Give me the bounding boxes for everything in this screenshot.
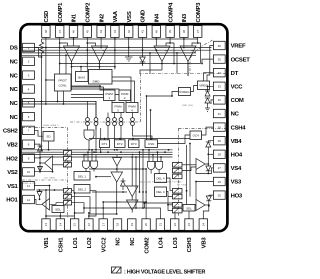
svg-text:DEL 3: DEL 3 bbox=[156, 190, 165, 194]
horizontal rail y176.7 bbox=[95, 176, 111, 178]
pin 3 NC (left) bbox=[10, 71, 35, 79]
svg-text:VCC2: VCC2 bbox=[101, 237, 107, 253]
mid bus line 4 bbox=[40, 156, 173, 158]
svg-text:13: 13 bbox=[44, 223, 48, 227]
svg-text:VB3: VB3 bbox=[202, 237, 208, 249]
wire CSH2 bbox=[34, 130, 43, 136]
input bus line 1 bbox=[22, 47, 212, 49]
block VREG bbox=[198, 81, 210, 90]
svg-text:NC: NC bbox=[231, 112, 240, 118]
svg-text:COMP1: COMP1 bbox=[58, 2, 64, 23]
svg-text:44: 44 bbox=[99, 30, 103, 34]
svg-text:12: 12 bbox=[27, 198, 31, 202]
svg-text:27: 27 bbox=[218, 166, 222, 170]
pin 32 COM (right) bbox=[213, 96, 244, 104]
svg-text:24: 24 bbox=[201, 223, 205, 227]
svg-text:NC: NC bbox=[10, 60, 19, 66]
svg-text:DT: DT bbox=[231, 71, 239, 77]
svg-text:NC: NC bbox=[116, 237, 122, 246]
domain dash right boundary bbox=[141, 73, 226, 75]
wire PROT bottom feeds bbox=[57, 91, 65, 105]
diode D5 bbox=[121, 178, 126, 190]
svg-text:29: 29 bbox=[218, 139, 222, 143]
svg-text:VS1: VS1 bbox=[7, 184, 18, 190]
domain dash HV top right bbox=[179, 127, 227, 129]
svg-text:20: 20 bbox=[144, 223, 148, 227]
op-amp EA2 bbox=[92, 46, 108, 62]
svg-text:COM: COM bbox=[231, 98, 244, 104]
svg-text:NC: NC bbox=[130, 237, 136, 246]
block DMD U4 bbox=[89, 70, 113, 85]
svg-text:45: 45 bbox=[85, 30, 89, 34]
AND gate G1 bbox=[84, 130, 94, 150]
wire HO4 pin bbox=[207, 153, 213, 155]
block SDL1 bbox=[52, 206, 64, 213]
pin 42 VSS (top) bbox=[125, 11, 133, 37]
block PROT CONL U2 bbox=[55, 74, 72, 91]
mid bus line 1 bbox=[22, 149, 173, 151]
AND gate G6 bbox=[156, 152, 163, 173]
pin 35 OCSET (right) bbox=[213, 55, 250, 63]
wire IN3 bbox=[183, 39, 185, 48]
svg-text:DEL 4: DEL 4 bbox=[156, 177, 165, 181]
svg-text:15: 15 bbox=[73, 223, 77, 227]
block SDL3 bbox=[183, 205, 195, 212]
svg-text:IN2: IN2 bbox=[99, 13, 105, 22]
svg-text:VCC: VCC bbox=[231, 85, 244, 91]
pin 24 VB3 (bottom) bbox=[199, 219, 207, 249]
svg-text:NC: NC bbox=[10, 73, 19, 79]
domain dash left vertical bbox=[67, 128, 69, 218]
svg-text:IN4: IN4 bbox=[155, 13, 161, 22]
svg-text:NC: NC bbox=[10, 115, 19, 121]
wire EA3 to PWM4 bbox=[140, 70, 162, 74]
pin 47 COMP1 (top) bbox=[56, 2, 64, 38]
svg-text:(D1) (D2) TO VB4 TO VS4 TO: (D1) (D2) TO VB4 TO VS4 TO VB3 bbox=[140, 181, 182, 183]
svg-text:: HIGH VOLTAGE LEVEL SHIFTER: : HIGH VOLTAGE LEVEL SHIFTER bbox=[124, 269, 206, 275]
level shifter LS2B bbox=[64, 157, 72, 162]
svg-text:47: 47 bbox=[58, 30, 62, 34]
svg-text:BIAS: BIAS bbox=[78, 76, 85, 80]
svg-text:DS: DS bbox=[10, 46, 18, 52]
wire VS1 bbox=[34, 185, 50, 199]
pin 19 NC (bottom) bbox=[128, 219, 136, 246]
wire COMP4 input jog bbox=[166, 39, 170, 46]
pin 2 NC (left) bbox=[10, 57, 35, 65]
svg-text:OCSET: OCSET bbox=[231, 57, 250, 63]
svg-text:NC: NC bbox=[10, 101, 19, 107]
svg-text:VREF: VREF bbox=[231, 44, 246, 50]
pin 40 IN4 (top) bbox=[152, 13, 160, 37]
vertical rail E bbox=[189, 143, 191, 197]
caption: high voltage level shifter legend bbox=[112, 267, 206, 275]
current source pair CS3 bbox=[106, 113, 110, 140]
svg-text:CSN: CSN bbox=[148, 142, 154, 146]
wire VCC2 rail bbox=[102, 201, 146, 219]
wire COMP1 input jog bbox=[60, 39, 68, 46]
pin 38 IN3 (top) bbox=[180, 13, 188, 37]
wire DS to R1 bbox=[34, 48, 42, 58]
wire OC4 to CSH4 bbox=[202, 127, 214, 135]
top pin stubs bbox=[46, 37, 198, 39]
level shifter LS4C bbox=[173, 174, 183, 179]
svg-text:17: 17 bbox=[101, 223, 105, 227]
wire COMP2 input jog bbox=[87, 39, 95, 46]
LS1 out wires bbox=[72, 191, 97, 217]
svg-text:HO1: HO1 bbox=[6, 198, 18, 204]
OR gate G3 bbox=[91, 150, 98, 172]
svg-text:VS3: VS3 bbox=[231, 180, 242, 186]
input bus line 2 bbox=[22, 49, 212, 51]
block DT1 bbox=[100, 140, 110, 148]
wire LO3 rail bbox=[144, 203, 175, 219]
pin 7 CSH2 (left) bbox=[3, 126, 35, 134]
wire bus PROT-PWM b bbox=[71, 89, 119, 90]
pin 25 HO3 (right) bbox=[213, 191, 243, 199]
svg-text:LO4: LO4 bbox=[159, 237, 165, 249]
svg-text:43: 43 bbox=[113, 30, 117, 34]
vertical feed x150 bbox=[149, 53, 151, 74]
row wire bbox=[89, 138, 202, 140]
wire PROT top feed bbox=[65, 54, 67, 74]
bus under top pins bbox=[42, 38, 198, 40]
pin 48 CSD (top) bbox=[42, 11, 50, 38]
wire CSH1 bbox=[59, 213, 61, 219]
svg-text:42: 42 bbox=[127, 30, 131, 34]
svg-text:NC: NC bbox=[10, 87, 19, 93]
wire fault bus b bbox=[22, 103, 97, 151]
wire CSH3 bbox=[188, 211, 190, 219]
svg-text:35: 35 bbox=[218, 57, 222, 61]
svg-text:LO1: LO1 bbox=[73, 237, 79, 249]
svg-text:CONL: CONL bbox=[59, 84, 68, 88]
svg-text:DT1: DT1 bbox=[102, 142, 108, 146]
svg-text:33: 33 bbox=[218, 85, 222, 89]
svg-text:TO VS3: TO VS3 bbox=[177, 185, 187, 187]
svg-text:LO2: LO2 bbox=[87, 237, 93, 249]
svg-text:41: 41 bbox=[141, 30, 145, 34]
wire VB1 up bbox=[45, 190, 47, 219]
svg-text:HO3: HO3 bbox=[231, 193, 243, 199]
pin 17 VCC2 (bottom) bbox=[99, 219, 107, 253]
level shifter LS4B bbox=[173, 168, 183, 173]
pin 12 HO1 (left) bbox=[6, 195, 34, 203]
block PWM4 bbox=[126, 103, 138, 113]
pin 11 VS1 (left) bbox=[7, 182, 34, 190]
clamp diode D2b bbox=[38, 166, 43, 172]
diode D-GND bbox=[140, 39, 146, 66]
wire HO2 pin bbox=[34, 151, 40, 172]
svg-text:40: 40 bbox=[154, 30, 158, 34]
level shifter LS2A bbox=[64, 151, 72, 156]
svg-text:CSH4: CSH4 bbox=[231, 125, 247, 131]
svg-text:46: 46 bbox=[72, 30, 76, 34]
wire IN2 bbox=[100, 39, 102, 48]
svg-text:COMP2: COMP2 bbox=[86, 2, 92, 23]
wire fault bus a bbox=[22, 101, 96, 104]
svg-text:IN1: IN1 bbox=[72, 13, 78, 22]
block SDH2 bbox=[43, 132, 54, 150]
svg-text:VDD (5V): VDD (5V) bbox=[182, 105, 193, 107]
driver HO4 buffer bbox=[182, 159, 209, 171]
svg-text:48: 48 bbox=[44, 30, 48, 34]
LS3 input wires bbox=[167, 178, 173, 211]
block OC4 bbox=[190, 131, 202, 140]
svg-text:39: 39 bbox=[168, 30, 172, 34]
svg-text:HIGH SIDE 2: HIGH SIDE 2 bbox=[43, 125, 59, 127]
level shifter LS1A bbox=[64, 189, 72, 194]
pin 30 CSH4 (right) bbox=[213, 123, 246, 131]
op-amp EA3 bbox=[154, 46, 170, 62]
wire col x100.7 bbox=[100, 128, 102, 153]
resistor R1 bbox=[39, 39, 43, 150]
svg-text:VB2: VB2 bbox=[7, 142, 19, 148]
svg-text:+: + bbox=[191, 49, 193, 53]
svg-text:+: + bbox=[75, 49, 77, 53]
level shifter LS2C bbox=[64, 163, 72, 168]
pin 23 CSH3 (bottom) bbox=[185, 219, 193, 253]
level shifter LS4A bbox=[173, 163, 183, 168]
driver HO3 buffer bbox=[182, 200, 210, 211]
horizontal rail y169 bbox=[89, 168, 147, 170]
svg-text:25: 25 bbox=[218, 193, 222, 197]
op-amp EA4 bbox=[180, 46, 196, 62]
svg-text:14: 14 bbox=[58, 223, 62, 227]
bootstrap diode D4 bbox=[206, 141, 214, 164]
ground VSS bbox=[125, 39, 133, 61]
svg-text:26: 26 bbox=[218, 180, 222, 184]
current source pair CS4 bbox=[113, 113, 117, 140]
clamp diode D1b bbox=[37, 190, 42, 200]
svg-text:CSH1: CSH1 bbox=[59, 237, 65, 253]
svg-text:LO3: LO3 bbox=[173, 237, 179, 249]
level shifter LS1B bbox=[64, 195, 72, 200]
buffer LO4 T2 bbox=[127, 186, 139, 200]
pin 39 COMP4 (top) bbox=[166, 2, 174, 38]
wire OC4 left bbox=[158, 135, 191, 144]
svg-text:+: + bbox=[165, 49, 167, 53]
wire bus PROT-PWM a bbox=[71, 85, 104, 90]
horizontal rail y208 bbox=[83, 207, 160, 219]
wire COMP2 feedback bbox=[86, 42, 100, 71]
svg-text:-: - bbox=[95, 49, 96, 53]
op-amp EA1 bbox=[64, 46, 80, 62]
buffer LO3 T3 bbox=[127, 200, 139, 213]
vertical rail COM2 bbox=[145, 169, 147, 219]
IC body outline bbox=[20, 24, 227, 231]
inverter G4 bbox=[113, 155, 122, 172]
wire CSN up bbox=[146, 95, 173, 140]
svg-text:DMD: DMD bbox=[93, 80, 101, 84]
pin 46 IN1 (top) bbox=[69, 13, 77, 37]
wire COMP4 feedback bbox=[161, 42, 175, 70]
wire DMD to PWM row2 b bbox=[112, 81, 135, 103]
svg-text:VB4: VB4 bbox=[231, 139, 243, 145]
pin 44 IN2 (top) bbox=[97, 13, 105, 37]
pin 29 VB4 (right) bbox=[213, 137, 242, 145]
svg-text:SDL: SDL bbox=[55, 208, 61, 212]
pin 37 COMP3 (top) bbox=[194, 2, 202, 38]
wire VREG to 5VREG bbox=[191, 86, 198, 92]
block PWM1 bbox=[104, 90, 116, 101]
domain dash mid horizontal bbox=[70, 121, 140, 123]
wire 5VREG out bbox=[172, 92, 179, 97]
pin 13 VB1 (bottom) bbox=[42, 219, 50, 249]
wire VS2 bbox=[34, 170, 53, 173]
wire IN1 bbox=[73, 38, 75, 46]
svg-text:VAA: VAA bbox=[113, 10, 119, 22]
pin 18 NC (bottom) bbox=[113, 219, 121, 246]
wire LO1 pin bbox=[74, 193, 76, 219]
domain dash phase1 bbox=[22, 179, 68, 181]
wire COMP1 feedback bbox=[59, 42, 201, 90]
level shifter LS3B bbox=[173, 194, 183, 199]
block DEL1 bbox=[74, 172, 90, 181]
bottom rail a bbox=[45, 215, 75, 217]
svg-text:32: 32 bbox=[218, 98, 222, 102]
svg-text:CSD: CSD bbox=[44, 11, 50, 23]
current source pair CS1 bbox=[86, 101, 90, 130]
vertical feed x177 bbox=[176, 53, 178, 74]
vertical rail A bbox=[135, 156, 137, 208]
svg-text:SDL: SDL bbox=[186, 207, 192, 211]
pin 31 NC (right) bbox=[213, 109, 239, 117]
svg-text:IN3: IN3 bbox=[182, 13, 188, 22]
pin 27 VS4 (right) bbox=[213, 164, 242, 172]
svg-text:19: 19 bbox=[130, 223, 134, 227]
svg-text:COMP3: COMP3 bbox=[196, 2, 202, 23]
svg-text:31: 31 bbox=[218, 112, 222, 116]
svg-text:28: 28 bbox=[218, 153, 222, 157]
svg-text:VS2: VS2 bbox=[7, 170, 18, 176]
pin 20 COM2 (bottom) bbox=[142, 219, 150, 254]
block 5VREG bbox=[179, 88, 191, 96]
svg-text:38: 38 bbox=[182, 30, 186, 34]
block DEL4 bbox=[155, 174, 167, 183]
svg-text:37: 37 bbox=[196, 30, 200, 34]
input bus line 4 bbox=[22, 54, 196, 56]
wire OCSET bbox=[201, 59, 213, 64]
domain dash left horizontal bbox=[22, 127, 68, 129]
wire IN4 bbox=[155, 39, 157, 51]
domain dash HV vertical bbox=[178, 128, 180, 217]
pin 22 LO3 (bottom) bbox=[171, 219, 179, 249]
block DT3 bbox=[129, 140, 140, 148]
OR gate G2 bbox=[83, 152, 90, 171]
wire VAA down to BIAS bbox=[71, 39, 116, 71]
AND gate G5 bbox=[148, 150, 155, 174]
svg-text:18: 18 bbox=[116, 223, 120, 227]
current source pair CS2 bbox=[94, 101, 98, 130]
pin 33 VCC (right) bbox=[213, 82, 243, 90]
svg-text:DT2: DT2 bbox=[117, 142, 123, 146]
pin 5 NC (left) bbox=[10, 99, 35, 107]
current source pair CS5 bbox=[119, 113, 123, 140]
wire VB3 bbox=[203, 205, 209, 219]
svg-text:(TO VB2): (TO VB2) bbox=[44, 177, 55, 179]
driver HO2 buffer bbox=[39, 156, 63, 170]
pin 41 GND (top) bbox=[138, 10, 146, 37]
current source pair CS6 bbox=[131, 113, 152, 140]
svg-text:21: 21 bbox=[159, 223, 163, 227]
wire COMP3 feedback bbox=[187, 42, 200, 76]
pin 8 VB2 (left) bbox=[7, 140, 35, 148]
wire HO3 pin bbox=[209, 194, 214, 196]
level shifter LS3A bbox=[173, 189, 183, 194]
svg-text:22: 22 bbox=[173, 223, 177, 227]
svg-text:DT3: DT3 bbox=[131, 142, 137, 146]
input bus line 3 bbox=[22, 52, 196, 54]
pin 1 DS (left) bbox=[10, 43, 34, 51]
svg-text:VSS: VSS bbox=[127, 11, 133, 22]
wire CSD branch down bbox=[45, 79, 47, 104]
wire DMD to PWM row2 a bbox=[112, 77, 131, 103]
block PWM3 bbox=[112, 103, 124, 113]
pin 14 CSH1 (bottom) bbox=[56, 219, 64, 253]
mid bus line 2 bbox=[22, 151, 173, 153]
wire CSD down bbox=[45, 39, 55, 80]
level shifter LS1C bbox=[64, 201, 72, 206]
block DEL3 bbox=[155, 187, 167, 197]
pin 45 COMP2 (top) bbox=[83, 2, 91, 38]
block CSN bbox=[145, 140, 158, 148]
wire VREF down to VREG bbox=[207, 46, 213, 82]
pin 9 HO2 (left) bbox=[6, 154, 34, 162]
svg-text:DEL 1: DEL 1 bbox=[78, 174, 87, 178]
wire EA1 out to PWM1 bbox=[72, 87, 104, 90]
junction dots row bbox=[41, 38, 185, 215]
pin 36 VREF (right) bbox=[213, 41, 246, 49]
svg-text:COM2: COM2 bbox=[144, 237, 150, 254]
block DT2 bbox=[115, 140, 126, 148]
svg-text:VS4: VS4 bbox=[231, 166, 242, 172]
diode D3 bbox=[206, 195, 211, 206]
wire T2 feed bbox=[131, 156, 133, 186]
svg-text:+: + bbox=[103, 49, 105, 53]
svg-text:PROT: PROT bbox=[59, 79, 68, 83]
pin 21 LO4 (bottom) bbox=[156, 219, 164, 249]
vertical rail C bbox=[142, 149, 144, 208]
pin 26 VS3 (right) bbox=[213, 177, 242, 185]
svg-text:30: 30 bbox=[218, 125, 222, 129]
pin 28 HO4 (right) bbox=[213, 150, 243, 158]
svg-text:GND: GND bbox=[141, 10, 147, 22]
wire bus PROT-PWM d bbox=[71, 98, 112, 103]
block BIAS U3 bbox=[76, 72, 89, 82]
pin 6 NC (left) bbox=[10, 112, 35, 120]
wire EA4 out down bbox=[187, 65, 189, 76]
svg-text:DEL 2: DEL 2 bbox=[78, 187, 87, 191]
svg-text:(VDD+0.3V): (VDD+0.3V) bbox=[22, 183, 36, 185]
svg-text:16: 16 bbox=[87, 223, 91, 227]
wire VS4 bbox=[196, 168, 213, 175]
svg-text:36: 36 bbox=[218, 44, 222, 48]
svg-text:CSH3: CSH3 bbox=[187, 237, 193, 253]
block PWM2 bbox=[119, 90, 131, 101]
pin 43 VAA (top) bbox=[111, 10, 119, 37]
svg-text:VB1: VB1 bbox=[44, 237, 50, 249]
wire VS3 bbox=[195, 181, 213, 200]
horizontal rail y192 bbox=[92, 191, 127, 193]
buffer LO1 T1 bbox=[89, 172, 123, 219]
pin 10 VS2 (left) bbox=[7, 168, 34, 176]
domain dash mid vertical bbox=[140, 74, 142, 123]
pin 16 LO2 (bottom) bbox=[85, 219, 93, 249]
rail y190 bbox=[37, 189, 64, 191]
svg-text:-: - bbox=[158, 49, 159, 53]
wire VCC-COM diodes bbox=[205, 85, 213, 111]
level shifter LS3D bbox=[173, 208, 183, 213]
